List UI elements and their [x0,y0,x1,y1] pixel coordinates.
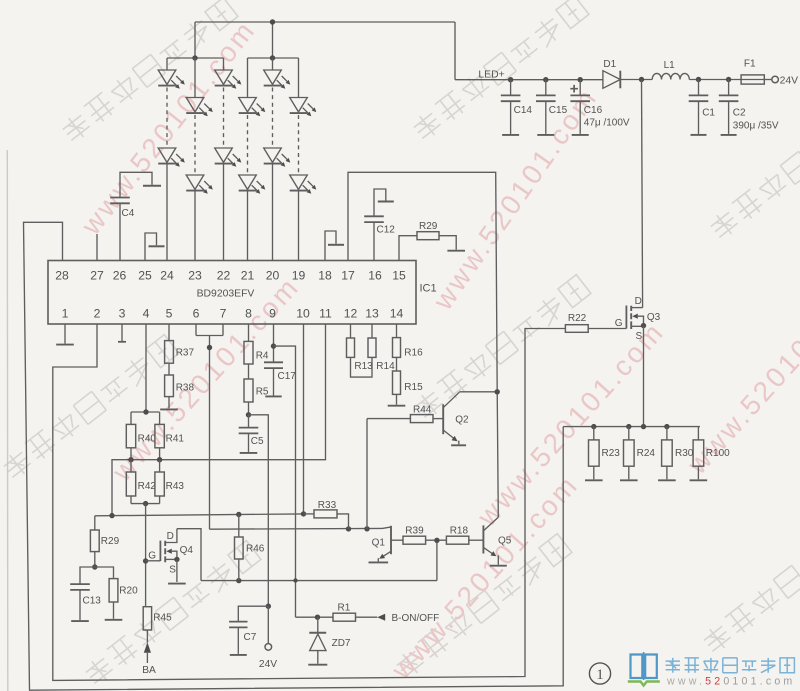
wire pins 6,7 down to base rail [209,336,211,530]
inductor L1 [652,60,689,79]
svg-text:C7: C7 [244,632,257,643]
junction Q3 drain [639,77,644,82]
junction R46 bottom [236,578,241,583]
wire LED column drops [167,58,299,98]
resistor R100 [693,427,730,480]
svg-text:R40: R40 [138,433,157,444]
wire Q3 drain [642,80,643,308]
wire left feed drop [194,22,196,58]
LED [186,98,213,117]
svg-text:14: 14 [390,307,404,321]
wire pin 17 to right frame [348,172,498,517]
wire LED group rail left [167,57,224,59]
wire divider top rail [131,412,160,424]
wire R22 to Q3 gate [588,328,626,330]
transistor Q4 [146,529,194,582]
svg-text:C15: C15 [549,105,568,116]
svg-text:C13: C13 [83,595,102,606]
svg-text:16: 16 [368,269,382,283]
svg-text:24V: 24V [780,75,799,86]
capacitor C4 [110,172,161,260]
ground for C7 [230,654,247,656]
svg-text:R22: R22 [568,313,587,324]
junction Q2 collector on frame [495,389,500,394]
resistor R20 [95,567,138,619]
junction rail left [109,513,114,518]
svg-text:R20: R20 [119,586,138,597]
svg-text:R13: R13 [354,361,373,372]
resistor R13 [347,324,374,372]
svg-text:D: D [635,296,642,307]
capacitor C17 [264,324,296,396]
wire pin 18 connector stub [325,231,336,261]
capacitor C16 with polarity [570,80,602,134]
svg-text:C12: C12 [377,225,396,236]
svg-text:17: 17 [341,269,355,283]
svg-text:18: 18 [318,269,332,283]
wire mid rail [131,448,160,460]
transistor Q3 [615,296,661,342]
svg-text:8: 8 [245,307,252,321]
LED [239,175,266,194]
svg-text:5: 5 [166,307,173,321]
ground pin 1 [56,344,74,346]
svg-text:Q1: Q1 [372,537,386,548]
wire top bus down to LED+ rail [454,22,456,80]
svg-text:390μ /35V: 390μ /35V [733,121,779,132]
svg-text:R44: R44 [413,405,432,416]
wire emitter rail to R39/R18 junction [436,540,438,580]
capacitor C13 [70,567,101,620]
svg-text:4: 4 [143,307,150,321]
svg-text:L1: L1 [664,60,676,71]
resistor R15 [393,357,424,404]
LED [264,70,291,89]
svg-text:C14: C14 [514,105,533,116]
svg-text:27: 27 [90,269,104,283]
resistor R41 [155,424,184,447]
logo book icon [628,652,660,686]
svg-text:24: 24 [160,269,174,283]
ground for C14 [502,134,519,136]
junction C2 [726,77,731,82]
resistor R29 (top) [399,221,456,261]
wire base rail [210,527,383,530]
ground for C2 [721,134,737,136]
fuse F1 [741,58,764,84]
wire pins 6,7 join [196,324,223,336]
LED [264,148,291,167]
resistor R39 [403,526,426,545]
ground for R23 [585,479,603,481]
svg-text:R42: R42 [138,481,157,492]
resistor R24 [624,427,656,480]
junction divider output [143,501,148,506]
svg-text:25: 25 [138,269,152,283]
svg-text:Q3: Q3 [647,312,661,323]
terminal 24V [265,644,272,651]
svg-text:R39: R39 [405,526,424,537]
logo text [666,658,795,673]
svg-text:IC1: IC1 [420,283,437,295]
svg-text:10: 10 [296,307,310,321]
junction C15 [543,77,548,82]
wire pin 27 stub [96,234,98,261]
capacitor C14 [501,80,533,134]
svg-text:R37: R37 [176,347,195,358]
svg-text:R46: R46 [246,543,265,554]
junction C1 [696,77,701,82]
svg-text:9: 9 [269,307,276,321]
svg-text:R4: R4 [256,350,269,361]
svg-text:R38: R38 [176,383,195,394]
resistor R4 [244,324,269,364]
svg-text:BA: BA [142,665,156,676]
wire R45 to BA with arrow [146,630,148,643]
svg-text:7: 7 [220,307,227,321]
junction R41/R43 [157,457,162,462]
LED [215,148,242,167]
svg-text:R100: R100 [706,448,730,459]
svg-text:G: G [615,318,623,329]
transistor Q1 [372,526,403,562]
ground for C17 [265,395,281,397]
wire pin 9 branch right and down [274,346,296,617]
svg-text:D: D [167,531,174,542]
junction on top bus [270,19,275,24]
junction R33 right [346,526,351,531]
resistor R30 [662,427,694,480]
svg-text:R23: R23 [602,448,621,459]
svg-text:LED+: LED+ [478,69,504,80]
svg-text:R30: R30 [675,448,694,459]
svg-text:F1: F1 [744,58,756,69]
ground for R24 [620,479,638,481]
resistor R18 [446,526,468,545]
diode D1 [603,59,620,88]
svg-text:Q5: Q5 [498,536,512,547]
wire divider output down to R45 [145,504,147,607]
svg-text:S: S [169,564,176,575]
svg-text:C16: C16 [584,105,603,116]
svg-text:1: 1 [62,307,69,321]
resistor R38 [165,363,195,408]
svg-text:Q2: Q2 [455,414,469,425]
wire Q4 drain to emitter rail [177,529,201,581]
svg-text:1: 1 [596,667,604,683]
ground for C5 [240,452,258,454]
svg-text:R1: R1 [338,603,351,614]
svg-text:22: 22 [217,269,231,283]
zener diode ZD7 [309,617,351,664]
LED [158,70,185,89]
wire F1 to terminal [764,79,771,81]
wire pin 10 down [303,324,305,514]
wire pin 1 [64,324,66,344]
wire pin 2 gate-drive loop to R22 [53,324,566,680]
resistor R45 [143,607,172,630]
ground for R30 [658,479,676,481]
svg-text:24V: 24V [259,659,277,670]
ground for Q5 emitter [490,565,507,567]
wire R42/R43 bottom join [131,496,160,504]
svg-text:C2: C2 [733,107,746,118]
wire R44 branch down [366,419,368,529]
junction pin 9 [271,343,276,348]
ground for Q2 emitter [451,444,466,446]
svg-text:6: 6 [193,307,200,321]
wire emitter rail [201,580,437,582]
wire LED cathodes to IC pins 24-19 [166,164,168,261]
ground for R100 [690,479,708,481]
resistor R29 (bottom) [90,516,119,552]
svg-text:R18: R18 [450,526,469,537]
LED [186,175,213,194]
svg-text:B-ON/OFF: B-ON/OFF [392,613,440,624]
svg-text:21: 21 [241,269,255,283]
wire pin 3 stub [121,324,123,341]
junction R39/R18 [434,538,439,543]
wire to 24V terminal [267,606,269,643]
capacitor C5 [239,415,264,452]
ground for Q1 emitter [369,561,389,563]
junction Q3 source on bus [641,424,646,429]
svg-text:C1: C1 [702,107,715,118]
junction pin4 feed [143,409,148,414]
svg-text:R15: R15 [404,382,423,393]
svg-text:12: 12 [344,307,358,321]
LED [239,98,266,117]
wire R44 to Q2 base [433,418,443,420]
wire L1 to F1 [689,79,741,81]
junction pin9 branch crossing [293,578,297,582]
junction C7 feed [266,604,271,609]
junction R46 top [236,512,241,517]
wire R5 to C5 node [248,402,250,415]
wire D1 to L1 [620,79,652,81]
junction R30 [664,424,669,429]
svg-text:R45: R45 [153,612,172,623]
wire R39 to R18 [426,539,447,541]
wire LED+ rail [455,79,603,81]
junction R5/C5/24V [246,412,251,417]
svg-text:S: S [635,331,642,342]
wire pin 25 connector stub [145,233,157,261]
svg-text:Q4: Q4 [180,545,194,556]
capacitor C15 [536,80,568,134]
resistor R23 [589,427,621,480]
junction below pins 6,7 [207,345,212,350]
svg-text:20: 20 [266,269,280,283]
capacitor C1 [689,80,716,134]
svg-text:R43: R43 [166,481,185,492]
svg-text:D1: D1 [603,59,616,70]
svg-text:13: 13 [365,307,379,321]
note marker circled 1 [589,663,610,684]
svg-text:28: 28 [55,269,69,283]
wire R13/R14 bottoms joined [351,357,373,377]
ground for C1 [691,134,707,136]
wire sense bus [563,426,700,428]
wire LED group rail right [248,57,299,59]
svg-text:26: 26 [113,269,127,283]
svg-text:www.520101.com: www.520101.com [666,676,795,688]
svg-text:19: 19 [292,269,306,283]
ground for Q4 source [168,583,186,585]
resistor R33 [304,500,349,529]
svg-text:R29: R29 [101,536,120,547]
junction R40/R42 [128,457,133,462]
ground for ZD7 [308,664,327,666]
resistor R5 [244,364,269,402]
ground for C15 [537,134,554,136]
LED [158,148,185,167]
LED [215,70,242,89]
svg-text:C4: C4 [122,208,135,219]
svg-text:47μ /100V: 47μ /100V [584,117,630,128]
junction R24 [626,424,631,429]
junction Q4 gate [143,558,148,563]
ground for R20 [105,619,123,621]
svg-text:2: 2 [94,307,101,321]
svg-text:R24: R24 [637,448,656,459]
capacitor C12 [364,189,395,261]
junction left rail [192,55,197,60]
svg-text:G: G [148,551,156,562]
svg-text:C17: C17 [278,371,297,382]
svg-text:15: 15 [392,269,406,283]
ground for C13 [71,620,89,622]
svg-text:R16: R16 [404,347,423,358]
resistor R40 [126,424,156,447]
wire right feed drop [272,22,274,58]
capacitor C2 [719,80,746,134]
svg-text:R29: R29 [419,221,438,232]
resistor R44 [367,405,433,423]
junction R33 left / pin 10 [301,511,306,516]
wire Q3 source to sense bus [643,326,645,427]
resistor R43 [155,460,184,496]
resistor R46 [235,515,265,581]
svg-text:11: 11 [319,307,332,321]
wire pin 4 [145,324,147,412]
svg-text:3: 3 [119,307,126,321]
junction R44 branch [364,526,369,531]
svg-text:ZD7: ZD7 [332,638,351,649]
svg-text:R33: R33 [318,500,337,511]
svg-text:C5: C5 [251,436,264,447]
svg-text:BD9203EFV: BD9203EFV [197,289,255,300]
ground for R29 [447,250,465,252]
wire R29 bottom node [94,552,96,567]
ground for R15 [388,405,406,407]
junction C16 [578,77,583,82]
junction right rail [270,55,275,60]
ground for R38 [160,408,178,410]
transistor Q2 [443,392,497,445]
LED [290,98,317,117]
wire top supply bus [195,21,455,23]
terminal 24V output [772,76,779,83]
resistor R16 [393,324,424,358]
wire dashed LED string sections [166,88,168,149]
wire feedback rail (R33) [95,514,304,516]
wire R1 to B-ON/OFF arrow [356,616,378,618]
resistor R22 [565,313,588,332]
capacitor C7 [229,606,268,654]
op-amp U IC1 BD9203EFV body [48,261,416,325]
wire sense return loop (outer frame) [24,222,564,690]
ground for C16 [572,134,589,136]
junction R23 [591,424,596,429]
wire R18 to Q5 base [469,539,484,541]
transistor Q5 [483,517,511,564]
junction ZD7 [315,615,320,620]
junction C14 [508,77,513,82]
resistor R14 [368,324,395,372]
LED [290,175,317,194]
junction R29/C13/R20 [92,564,97,569]
resistor R37 [165,324,195,363]
wire node to 24V feed line [249,415,269,606]
svg-text:23: 23 [188,269,202,283]
resistor R1 [296,603,356,622]
wire pin 11 to divider rail [112,324,326,516]
resistor R42 [126,460,156,496]
svg-text:R41: R41 [166,433,185,444]
